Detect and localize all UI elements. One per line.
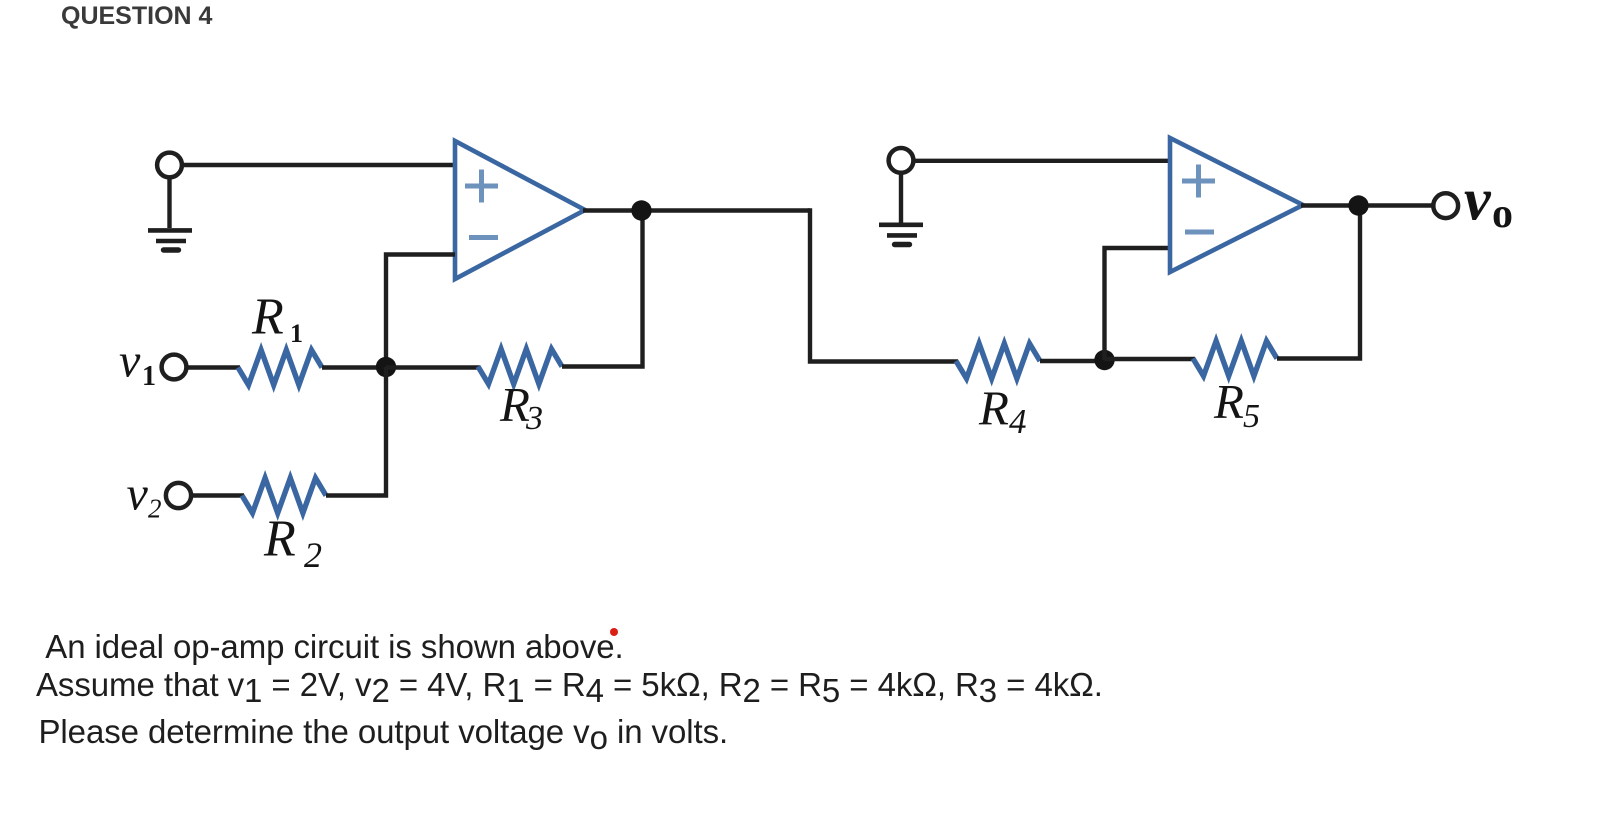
ground G2 bar 3 — [895, 242, 910, 247]
wire: R2 to node N1 (right then up) — [326, 367, 386, 496]
svg-text:2: 2 — [148, 494, 162, 524]
ground terminal circle G2 — [889, 148, 914, 173]
wire: G2 terminal to U2 + input — [914, 159, 1173, 163]
terminal vo — [1433, 193, 1458, 218]
node N1 junction dot — [376, 357, 396, 377]
svg-text:4: 4 — [1009, 402, 1027, 441]
svg-text:R: R — [251, 289, 284, 346]
red dot over period — [610, 628, 618, 636]
ground G2 bar 1 — [879, 223, 923, 228]
U1 - input marker — [469, 235, 498, 240]
wire: N2 up to U2 - input — [1105, 248, 1173, 360]
wire: R5 right end up to U2 output node — [1277, 206, 1360, 359]
svg-text:R: R — [263, 511, 296, 568]
resistor R1 — [238, 350, 322, 385]
wire: v1 terminal to R1 — [187, 365, 241, 369]
wire: interstage down and right to R4 — [810, 208, 958, 361]
resistor R2 — [242, 478, 326, 513]
wire: U2 output to vo terminal — [1301, 203, 1433, 207]
U1 + input marker — [465, 170, 498, 203]
svg-text:v: v — [1464, 167, 1492, 233]
wire: R1 to node N1 — [322, 365, 388, 369]
wire: N1 to R3 — [386, 365, 480, 369]
wire: v2 terminal to R2 — [191, 493, 244, 497]
wire: N2 to R5 — [1105, 357, 1196, 361]
ground G1 bar 2 — [156, 239, 186, 244]
svg-text:v: v — [119, 335, 141, 388]
resistor R4 — [956, 344, 1040, 379]
wire: R3 right end up to U1 output node — [562, 211, 643, 367]
op-amp U1 triangle — [455, 141, 585, 279]
caption line 2 — [36, 668, 1103, 701]
svg-text:R: R — [978, 381, 1009, 436]
svg-text:1: 1 — [290, 319, 303, 348]
caption line 1 — [38, 630, 624, 663]
heading QUESTION 4 — [61, 1, 212, 31]
ground G2 stem wire — [899, 173, 903, 223]
resistor R5 — [1193, 341, 1277, 376]
node: U1 output junction dot — [631, 200, 651, 220]
wire: R4 to node N2 — [1040, 359, 1106, 363]
wire: U1 output (apex to corner) — [583, 208, 810, 212]
terminal v1 — [162, 355, 187, 380]
svg-text:2: 2 — [304, 535, 322, 575]
node: U2 output junction dot — [1348, 195, 1368, 215]
U2 + input marker — [1182, 165, 1215, 198]
node N2 junction dot — [1094, 350, 1114, 370]
caption line 3 — [39, 715, 729, 748]
terminal v2 — [166, 483, 191, 508]
wire: U1 - input to node N1 (left then down) — [386, 255, 455, 368]
op-amp U2 triangle — [1170, 138, 1303, 272]
svg-text:R: R — [1213, 374, 1244, 429]
ground G2 bar 2 — [887, 233, 917, 238]
ground G1 stem wire — [167, 178, 171, 228]
svg-text:3: 3 — [525, 400, 543, 437]
resistor R3 — [478, 349, 562, 384]
ground G1 bar 1 — [148, 228, 192, 233]
svg-text:1: 1 — [142, 361, 156, 392]
wire: G1 terminal to U1 + input — [182, 163, 457, 167]
svg-text:5: 5 — [1243, 398, 1260, 435]
ground G1 bar 3 — [164, 247, 179, 252]
ground terminal circle G1 — [157, 153, 182, 178]
svg-text:o: o — [1492, 191, 1513, 237]
U2 - input marker — [1185, 230, 1214, 235]
svg-text:v: v — [127, 468, 149, 521]
